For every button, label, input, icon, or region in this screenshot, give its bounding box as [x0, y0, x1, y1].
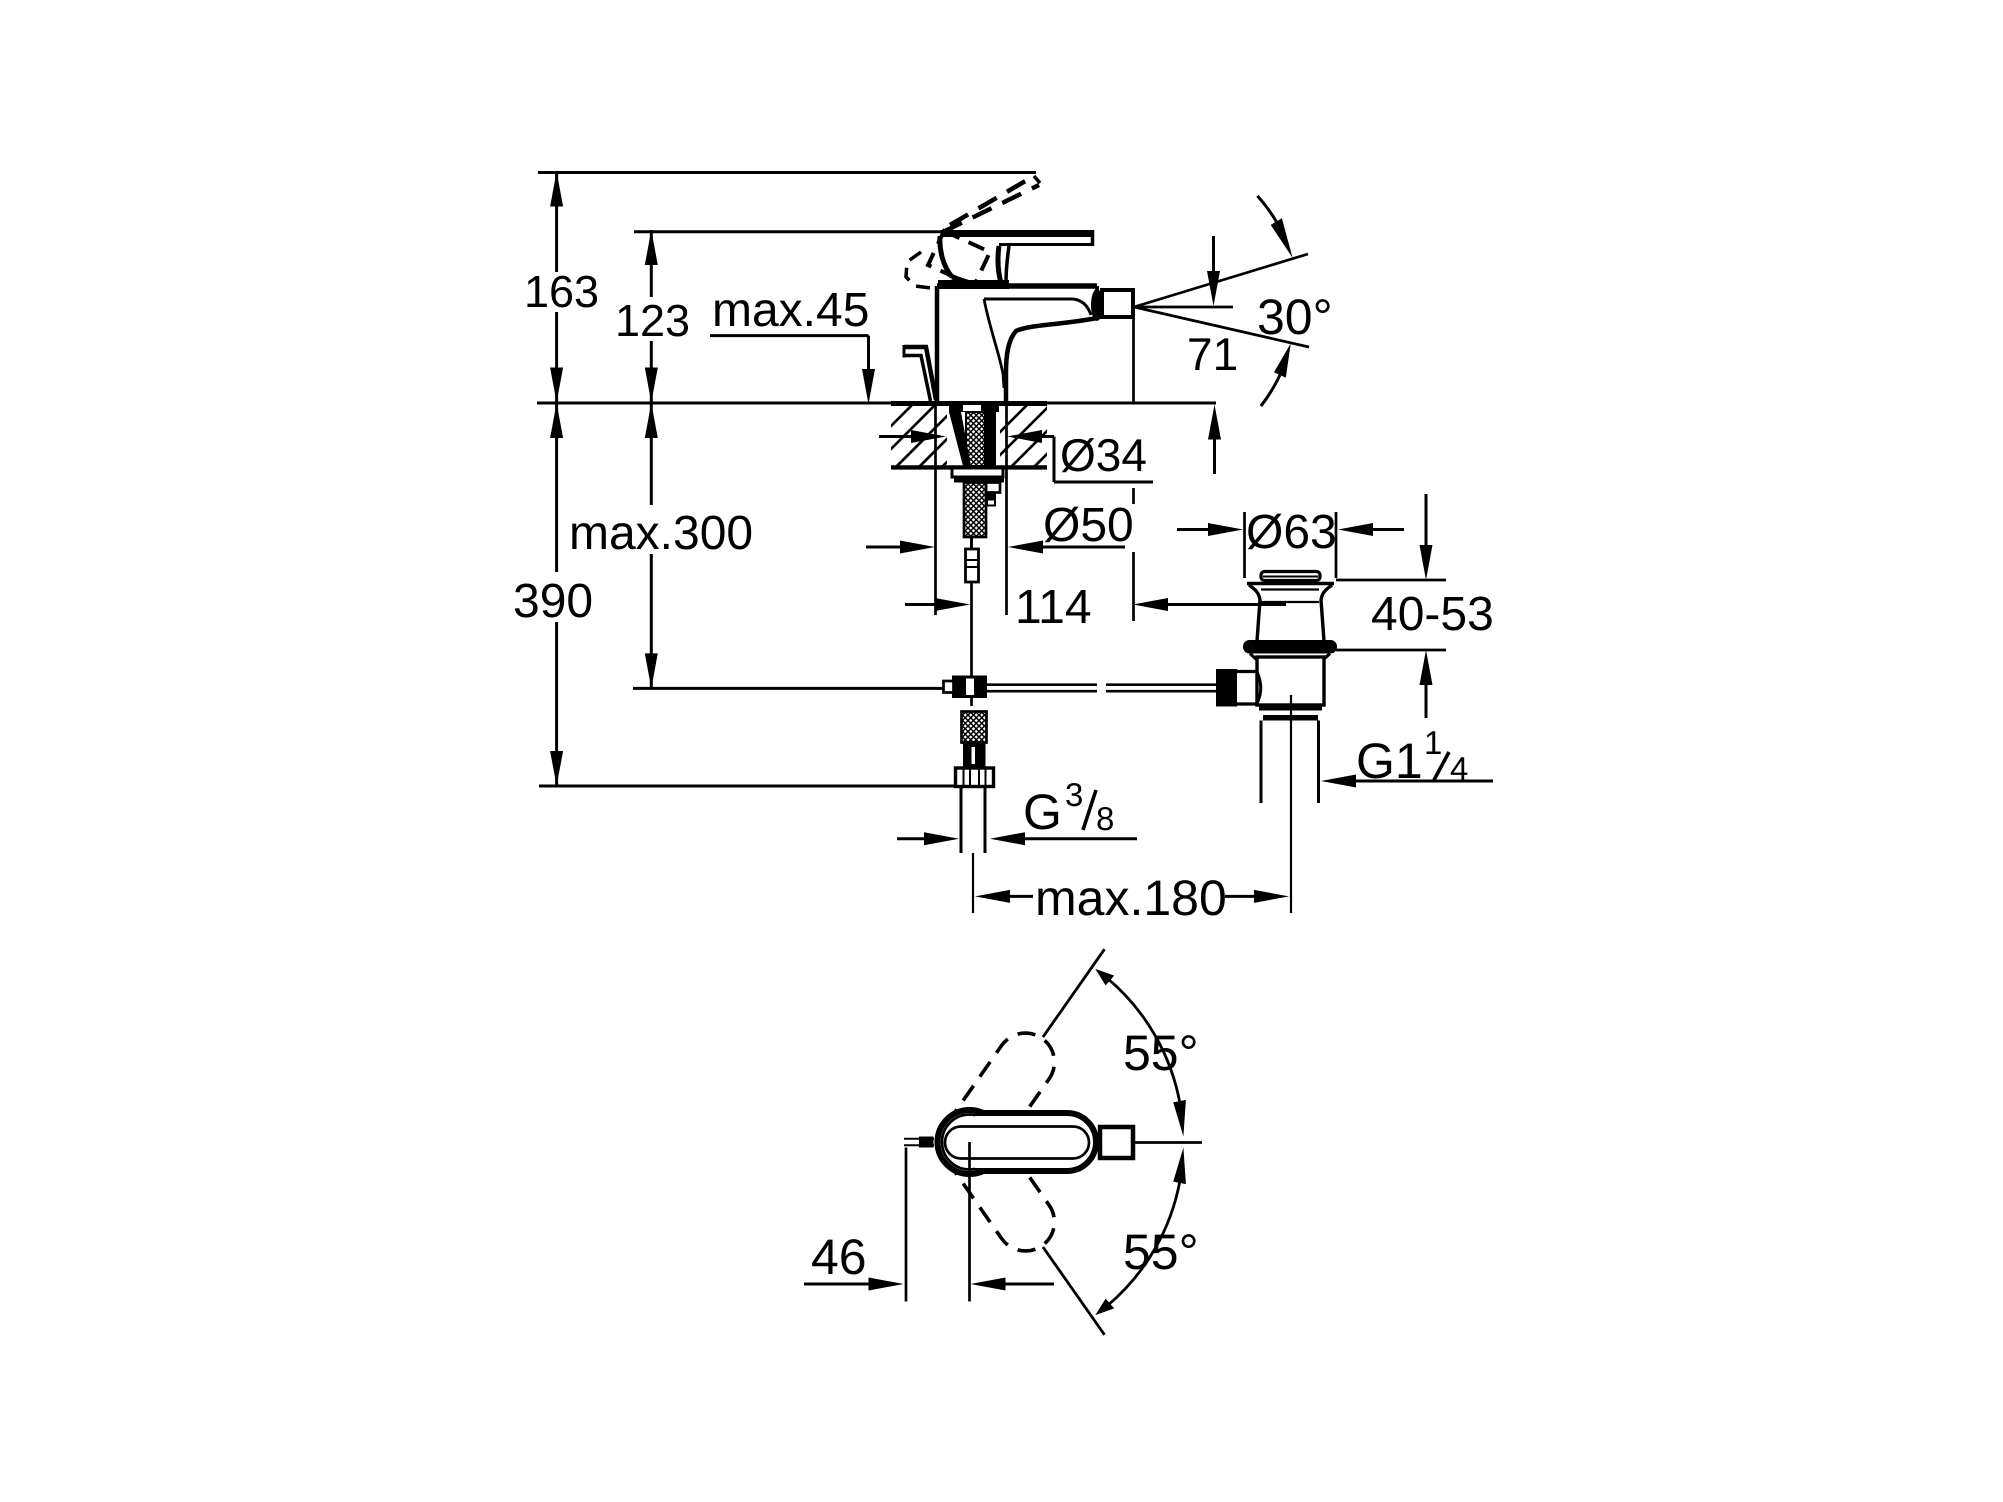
faucet body outline	[937, 283, 1097, 289]
svg-text:71: 71	[1187, 328, 1238, 380]
svg-text:114: 114	[1015, 581, 1092, 634]
threaded shank	[966, 412, 985, 466]
dimension 163	[555, 172, 558, 273]
SIDEVIEW	[513, 172, 1494, 927]
svg-text:max.300: max.300	[569, 507, 753, 560]
cartridge black band	[938, 280, 1009, 289]
dimension 40-53	[1425, 494, 1428, 546]
extension line dia34-114	[1132, 488, 1135, 504]
svg-text:30°: 30°	[1257, 289, 1333, 345]
svg-text:Ø34: Ø34	[1060, 429, 1147, 481]
drain o-ring	[1243, 640, 1337, 654]
mounting flange	[952, 468, 1003, 477]
angle arc lower	[1107, 1179, 1180, 1306]
drain funnel	[1249, 585, 1260, 641]
pull rod knob	[904, 347, 936, 400]
handle capsule outer	[975, 1113, 1096, 1171]
reference line top (163 level)	[538, 171, 1036, 174]
drain knob hub	[1237, 670, 1258, 673]
reference line 123 level	[634, 230, 941, 233]
arc 30 lower	[1261, 375, 1280, 406]
dimension 46	[804, 1283, 869, 1286]
dashed lever tail	[906, 252, 931, 288]
faucet spout inner line	[984, 299, 1091, 315]
dimension 114	[905, 603, 935, 606]
hose fitting	[966, 549, 979, 582]
hose rod	[970, 537, 973, 549]
lever pivot wedge	[940, 236, 952, 277]
svg-text:Ø63: Ø63	[1246, 506, 1337, 559]
svg-text:390: 390	[513, 575, 593, 628]
seal cone left wedge	[949, 412, 971, 466]
svg-text:Ø50: Ø50	[1043, 499, 1134, 552]
supply hose lower	[962, 712, 987, 743]
spray axis line	[1134, 306, 1233, 309]
dimension 123	[650, 230, 653, 297]
dimension max.300	[650, 403, 653, 506]
lever neck	[998, 246, 1001, 283]
svg-text:max.180: max.180	[1035, 870, 1227, 926]
extension line outlet to deck	[1132, 317, 1135, 402]
svg-text:163: 163	[524, 266, 599, 317]
pull rod bottom view	[904, 1138, 934, 1140]
drain cap plate	[1247, 582, 1334, 585]
supply centerline	[972, 853, 974, 913]
dimension dia63	[1243, 512, 1246, 578]
spray cone lower line	[1134, 307, 1309, 347]
body circle outer	[938, 1110, 1002, 1174]
reference line 390 level	[539, 785, 994, 788]
reference line max.300 level	[633, 687, 944, 690]
svg-text:40-53: 40-53	[1371, 588, 1494, 641]
mousseur square bottom view	[1100, 1127, 1133, 1158]
extension line rod tip	[905, 1148, 908, 1302]
pop-up rod upper	[970, 582, 973, 628]
spray cone upper line	[1134, 254, 1308, 307]
svg-text:46: 46	[811, 1229, 867, 1285]
drain centerline	[1290, 695, 1292, 913]
drain body	[1250, 654, 1257, 661]
faucet spout underside	[1006, 318, 1097, 402]
arrow G1 1/4	[1321, 775, 1356, 788]
mousseur crescent	[1091, 289, 1103, 321]
supply nut	[956, 768, 994, 787]
deck hatch right	[965, 401, 1100, 467]
dimension 390	[555, 403, 558, 573]
dimension 71	[1212, 236, 1215, 272]
drain pop-up cap	[1261, 572, 1320, 581]
dimension dia50	[934, 404, 937, 615]
arc 30 upper	[1257, 196, 1276, 222]
supply pipe	[960, 787, 963, 854]
svg-text:1: 1	[1424, 724, 1442, 761]
dashed lever open	[943, 176, 1040, 232]
dimension max.180	[975, 890, 1010, 903]
deck underside line	[891, 465, 1047, 469]
axis line right	[1133, 1141, 1202, 1144]
dashed pivot square	[928, 231, 990, 286]
seal cone right bar	[985, 412, 996, 466]
faucet spout swoosh line	[984, 299, 1004, 388]
angle arc upper	[1107, 978, 1180, 1105]
centerline down	[968, 1142, 971, 1302]
svg-text:8: 8	[1096, 800, 1114, 837]
svg-text:G: G	[1023, 784, 1062, 840]
BOTTOMVIEW	[804, 949, 1202, 1335]
handle capsule inner	[945, 1127, 1089, 1159]
dashed handle rotated up	[944, 1033, 1055, 1166]
seal cone top band	[949, 404, 999, 412]
svg-text:55°: 55°	[1123, 1224, 1199, 1280]
pop-up rod mid	[970, 628, 973, 677]
dimension dia34	[879, 435, 911, 438]
body circle inner	[942, 1115, 997, 1170]
mousseur square	[1102, 290, 1133, 317]
svg-text:max.45: max.45	[712, 284, 869, 337]
svg-text:55°: 55°	[1123, 1025, 1199, 1081]
deck line	[537, 402, 891, 405]
dashed handle rotated down	[944, 1117, 1055, 1250]
pop-up horizontal rod	[986, 683, 1097, 686]
supply hose upper	[964, 483, 986, 538]
drain tailpipe	[1260, 721, 1263, 804]
drain knob knurled	[1216, 669, 1237, 707]
arrows G 3/8	[897, 837, 924, 840]
svg-text:123: 123	[615, 295, 690, 346]
check valve block	[963, 743, 986, 769]
lever bar closed	[941, 230, 1093, 237]
mounting nut steps	[986, 483, 1000, 493]
55deg line lower	[1043, 1247, 1105, 1335]
svg-text:3: 3	[1065, 776, 1083, 813]
pop-up rod coupler	[954, 677, 986, 697]
deck hatch left	[850, 401, 1008, 467]
55deg line upper	[1043, 949, 1105, 1037]
